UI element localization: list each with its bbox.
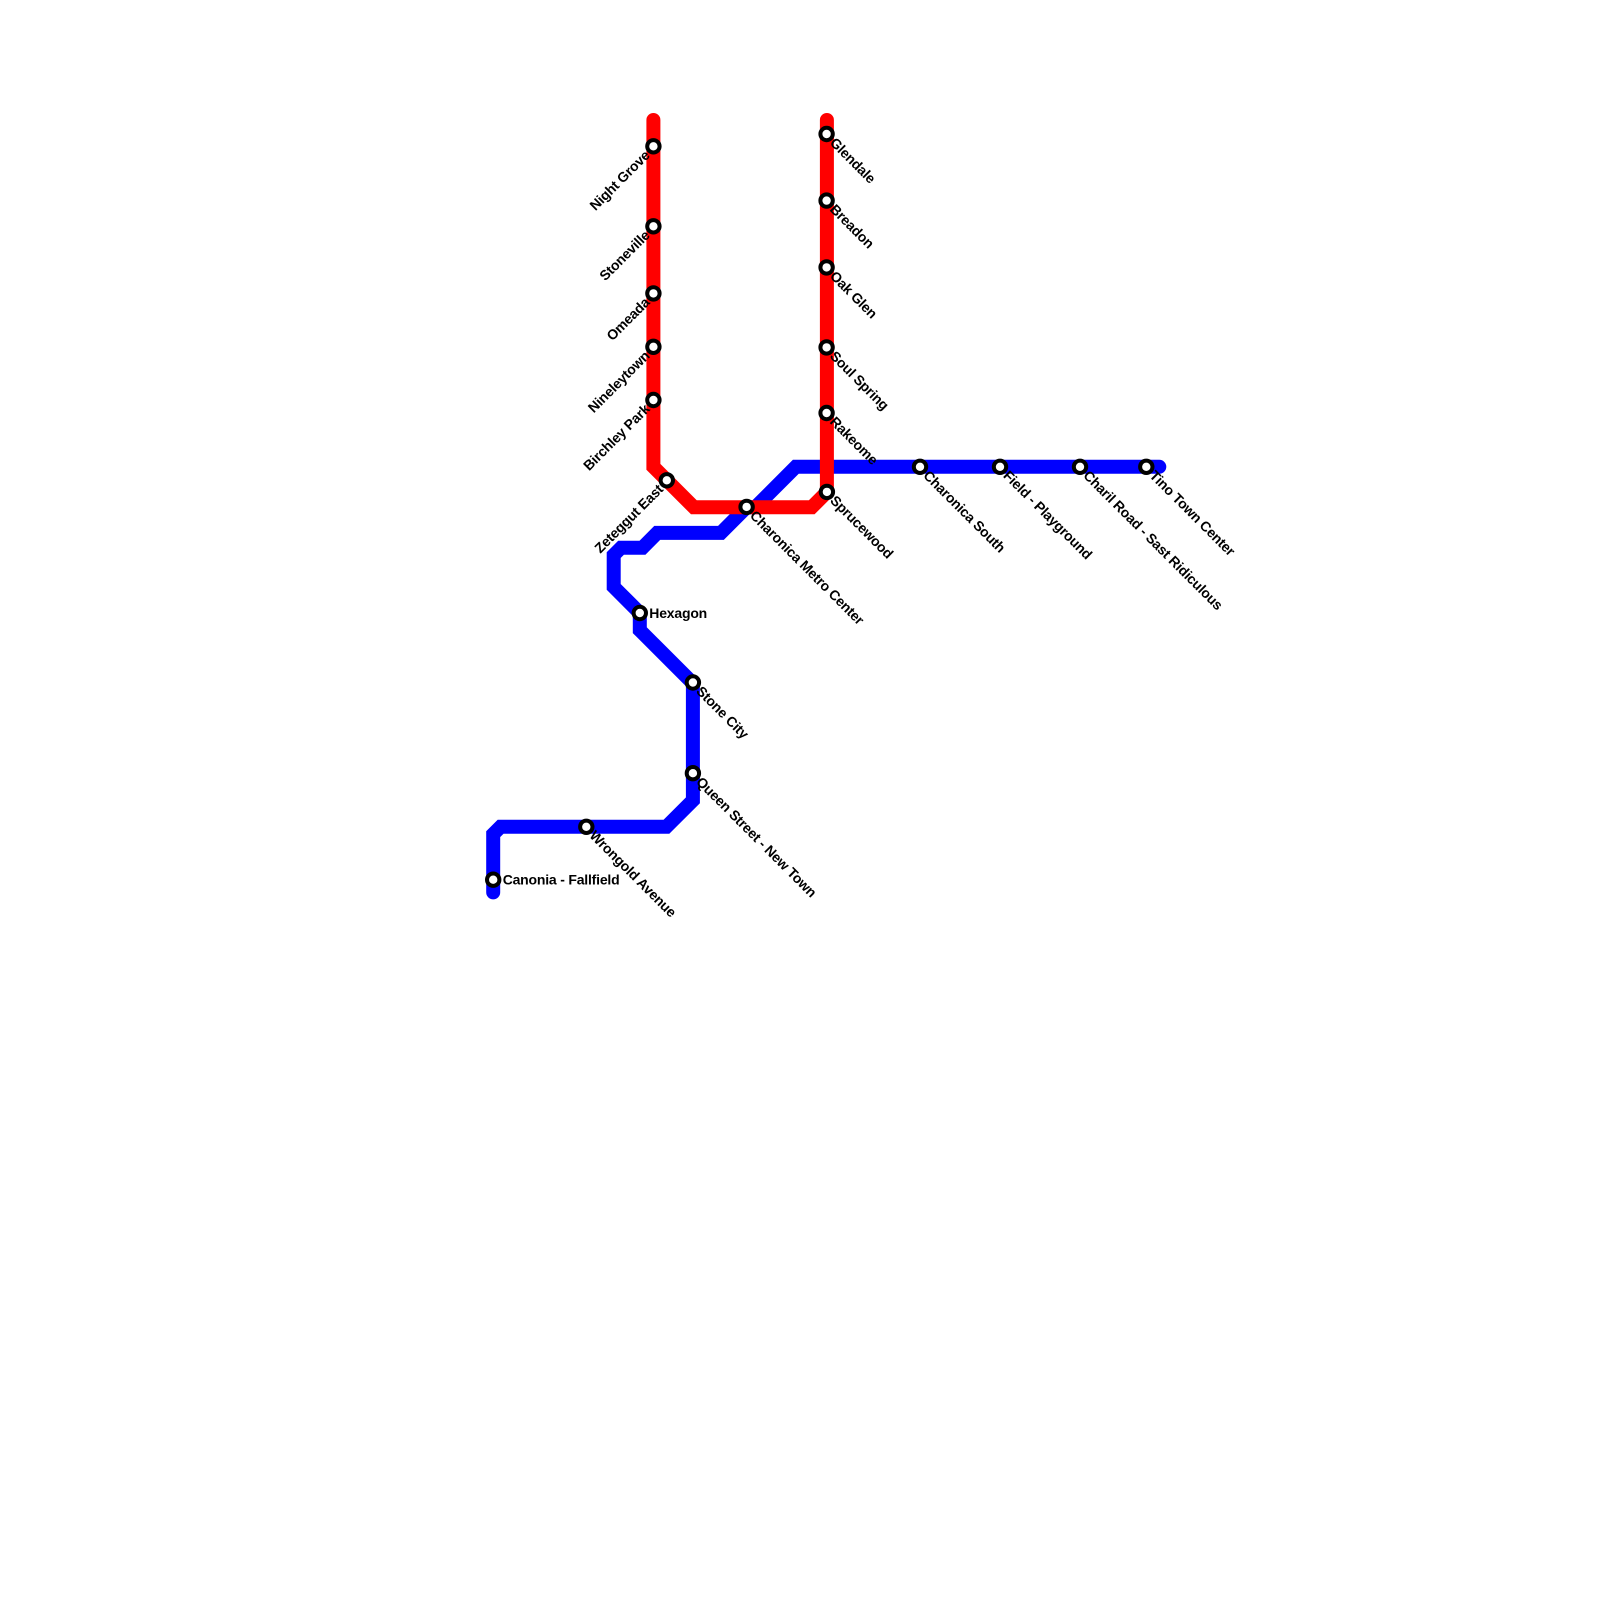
station Omeada xyxy=(603,287,659,343)
svg-text:Hexagon: Hexagon xyxy=(649,605,707,621)
station Wrongold Avenue xyxy=(580,821,680,921)
station Field - Playground xyxy=(994,461,1096,563)
station Nineleytown xyxy=(585,341,660,416)
svg-text:Oak Glen: Oak Glen xyxy=(827,268,881,322)
station Rakeome xyxy=(820,407,881,468)
station Night Grove xyxy=(586,140,659,213)
station Zeteggut East xyxy=(591,474,673,556)
svg-text:Sprucewood: Sprucewood xyxy=(827,492,896,561)
station Stone City xyxy=(687,676,753,742)
svg-text:Breadon: Breadon xyxy=(827,201,877,251)
svg-text:Queen Street - New Town: Queen Street - New Town xyxy=(693,774,820,901)
red line xyxy=(653,120,827,507)
svg-text:Omeada: Omeada xyxy=(603,294,653,344)
svg-text:Stone City: Stone City xyxy=(693,683,752,742)
station Stoneville xyxy=(596,220,660,284)
station Charonica South xyxy=(914,461,1009,556)
svg-text:Rakeome: Rakeome xyxy=(827,413,882,468)
svg-text:Field - Playground: Field - Playground xyxy=(1000,467,1095,562)
station Canonia - Fallfield xyxy=(487,872,619,888)
svg-text:Charil Road - Sast Ridiculous: Charil Road - Sast Ridiculous xyxy=(1080,467,1226,613)
svg-text:Glendale: Glendale xyxy=(827,134,879,186)
station Hexagon xyxy=(634,605,707,621)
station Breadon xyxy=(820,194,877,251)
station Queen Street - New Town xyxy=(687,767,820,900)
svg-text:Soul Spring: Soul Spring xyxy=(827,348,892,413)
svg-text:Canonia - Fallfield: Canonia - Fallfield xyxy=(503,872,620,888)
svg-text:Charonica South: Charonica South xyxy=(920,467,1008,555)
station Sprucewood xyxy=(821,486,897,562)
svg-text:Stoneville: Stoneville xyxy=(596,227,653,284)
station Soul Spring xyxy=(820,341,892,413)
station Charonica Metro Center xyxy=(740,501,868,629)
station Oak Glen xyxy=(820,261,880,321)
blue line xyxy=(493,467,1159,893)
station Tino Town Center xyxy=(1140,461,1239,560)
station Birchley Park xyxy=(580,394,660,474)
station Glendale xyxy=(820,128,879,187)
station Charil Road - Sast Ridiculous xyxy=(1074,461,1227,614)
svg-text:Night Grove: Night Grove xyxy=(586,147,653,214)
